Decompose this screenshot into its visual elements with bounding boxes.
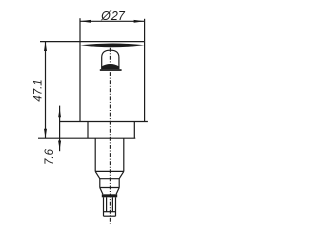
shaft section	[94, 138, 96, 171]
cap chamfer lens (top face seen edge-on)	[80, 44, 144, 48]
nipple base bar	[100, 69, 122, 71]
dimension line Ø27	[80, 20, 145, 22]
body bottom line / step top	[60, 121, 148, 123]
extension line right (body edge up)	[144, 19, 146, 42]
step bottom line (47.1 / 7.6 reference)	[38, 137, 135, 139]
arrowhead up of 7.6	[58, 108, 61, 117]
nipple meniscus (dark band)	[102, 64, 119, 69]
taper to nut	[95, 171, 100, 178]
taper to tip	[100, 188, 103, 195]
arrowhead top of 47.1	[44, 42, 47, 51]
extension line left (body edge up)	[79, 18, 81, 41]
nut section	[100, 178, 120, 180]
arrowhead bottom of 47.1	[44, 129, 47, 138]
extension/top line for 47.1 and body top face	[40, 41, 145, 43]
arrowhead right of Ø27	[134, 20, 145, 23]
centerline (vertical dash-dot axis)	[109, 48, 111, 224]
step section (hex flange)	[87, 122, 89, 139]
body (main cylinder outline)	[79, 42, 81, 122]
tip dark collar band	[102, 194, 117, 197]
svg-text:47.1: 47.1	[32, 79, 44, 101]
nipple (small domed cylinder inside top)	[102, 50, 119, 69]
svg-text:7.6: 7.6	[44, 148, 56, 165]
dimension 7.6 (vertical, arrows outside)	[59, 106, 61, 152]
arrowhead left of Ø27	[80, 20, 91, 23]
arrowhead down of 7.6	[58, 141, 61, 150]
tip cylinder	[103, 197, 105, 216]
tip inner lines	[106, 197, 108, 211]
tip cross line	[104, 211, 116, 213]
dimension 47.1 (vertical)	[45, 42, 47, 139]
